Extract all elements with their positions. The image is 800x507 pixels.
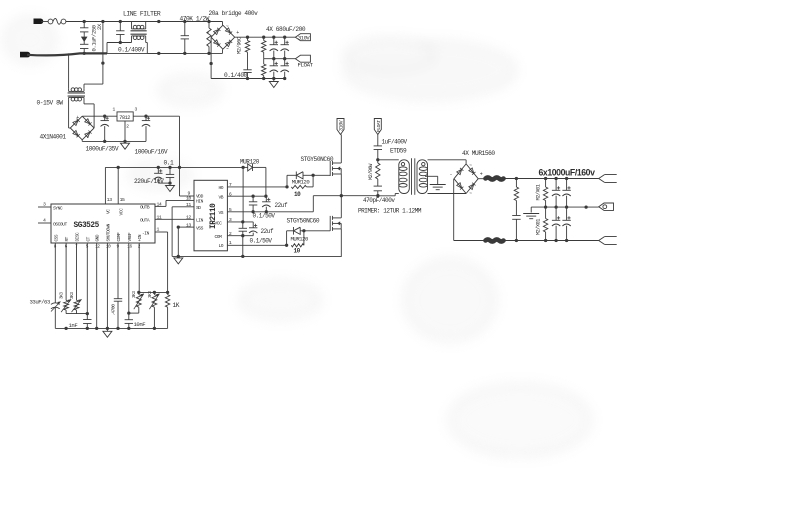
wire secondary right to bridge bbox=[84, 97, 94, 128]
pin 3 SYNC bbox=[38, 202, 63, 212]
svg-text:33uF/63: 33uF/63 bbox=[30, 299, 50, 306]
transformer T2 primary winding bbox=[399, 160, 410, 194]
svg-text:6x1000uF/160v: 6x1000uF/160v bbox=[539, 167, 596, 177]
surge arrester arrow bbox=[82, 34, 87, 41]
wire VCC pin 15 riser bbox=[117, 167, 119, 204]
wire RT column bbox=[65, 243, 67, 314]
svg-text:+: + bbox=[480, 172, 483, 178]
label 220uF/16V bbox=[134, 178, 164, 185]
earth ground at output mid bbox=[523, 207, 539, 219]
wire VB drop bbox=[265, 167, 267, 196]
svg-text:4X 680uF/200: 4X 680uF/200 bbox=[266, 26, 306, 33]
svg-text:0-15V 8W: 0-15V 8W bbox=[37, 100, 64, 107]
svg-text:0.1/50V: 0.1/50V bbox=[250, 238, 273, 245]
wire bottom DC- rail bbox=[454, 239, 599, 242]
wire SHUTDOWN column bbox=[106, 243, 108, 328]
capacitor 33uF/63 soft-start bbox=[51, 302, 61, 312]
capacitor 470pF/400v bbox=[374, 186, 382, 196]
capacitor 1000uF/160 #1 bbox=[552, 179, 560, 208]
MOSFET Q1 STGY50NC60 high side bbox=[330, 161, 341, 176]
svg-text:4X MUR1560: 4X MUR1560 bbox=[462, 150, 495, 157]
svg-text:+: + bbox=[236, 30, 239, 36]
capacitor 1uF/400V bbox=[374, 146, 382, 160]
connector FLOAT (vertical) bbox=[374, 119, 382, 135]
resistor balance top M2/X01 bbox=[543, 179, 547, 208]
fuse F1 bbox=[48, 19, 66, 25]
svg-text:OSCOUT: OSCOUT bbox=[53, 221, 68, 227]
ground at 12V bypass bbox=[166, 186, 175, 192]
line filter choke bottom winding bbox=[132, 36, 146, 43]
wire to LV transformer left pin bbox=[68, 53, 70, 88]
pin 13 VC label bbox=[106, 197, 113, 214]
wire trimmer bottoms to CT bbox=[66, 312, 89, 315]
wire half-bridge midpoint bbox=[313, 194, 379, 197]
label 22uf bootstrap bbox=[275, 202, 288, 209]
wire VB rail bbox=[227, 195, 267, 198]
wire GND column bbox=[96, 243, 98, 328]
pin 5 VS bbox=[219, 207, 232, 216]
label M2 snubber bbox=[368, 163, 374, 180]
svg-text:220uF/16V: 220uF/16V bbox=[134, 178, 164, 185]
wire AC top to bridge bbox=[222, 22, 224, 26]
svg-text:FLOAT: FLOAT bbox=[376, 120, 382, 132]
wire output V+ rail bbox=[504, 177, 599, 180]
svg-text:1K: 1K bbox=[173, 302, 180, 309]
label MUR120 bootstrap bbox=[240, 159, 260, 166]
svg-text:.4700: .4700 bbox=[110, 304, 116, 316]
svg-text:1uF/400V: 1uF/400V bbox=[382, 139, 408, 146]
wire pot top rail bbox=[137, 291, 169, 294]
resistor 10 low gate bbox=[291, 231, 304, 247]
svg-text:MUR120: MUR120 bbox=[240, 159, 260, 166]
ground at SG3525 bus bbox=[103, 328, 112, 337]
svg-text:M2/96W: M2/96W bbox=[368, 163, 374, 180]
svg-text:HIN: HIN bbox=[196, 199, 204, 205]
svg-text:VCC: VCC bbox=[215, 220, 223, 226]
svg-text:10: 10 bbox=[294, 191, 301, 198]
svg-text:DISC: DISC bbox=[76, 232, 81, 242]
capacitor 10nF bbox=[125, 320, 133, 324]
wire secondary left to bridge bbox=[69, 100, 71, 128]
svg-text:SYNC: SYNC bbox=[53, 205, 63, 211]
wire bridge to DC- down bbox=[453, 179, 455, 241]
label 20a bridge 400v bbox=[209, 10, 259, 17]
connector output V- bbox=[599, 237, 617, 245]
wire Q2 drain to midpoint bbox=[340, 196, 342, 218]
svg-text:1000uF/16V: 1000uF/16V bbox=[135, 148, 168, 155]
transformer T2 secondary lead top bbox=[428, 160, 467, 164]
label MUR120 low bbox=[291, 235, 310, 242]
LV transformer secondary bbox=[69, 97, 84, 101]
svg-text:310V: 310V bbox=[298, 36, 310, 42]
svg-text:0.1: 0.1 bbox=[164, 159, 175, 166]
wire mid float rail bbox=[264, 57, 296, 60]
capacitor 22uf vcc bbox=[249, 222, 257, 236]
resistor 1K bbox=[165, 292, 169, 328]
wire SD to ground bbox=[172, 207, 194, 257]
capacitor 1000uF/160 #2 bbox=[562, 179, 570, 208]
capacitor 1000uF/16V bbox=[142, 116, 150, 141]
svg-text:LINE FILTER: LINE FILTER bbox=[123, 11, 161, 18]
wire -IN feedback bbox=[155, 232, 168, 292]
trimmer RT bbox=[61, 299, 71, 312]
label 4X MUR1560 bbox=[462, 150, 495, 157]
svg-text:LIN: LIN bbox=[196, 217, 204, 223]
wire +12V down bbox=[179, 116, 181, 167]
capacitor 680uF/200 #4 bbox=[281, 59, 289, 80]
wire Q1 drain to 310V bbox=[340, 135, 342, 164]
SG3525 bottom pin labels bbox=[54, 223, 143, 249]
svg-text:LO: LO bbox=[219, 243, 224, 249]
pin 12 LIN bbox=[186, 214, 204, 223]
svg-text:ETD59: ETD59 bbox=[390, 148, 407, 155]
label 1K bbox=[173, 302, 180, 309]
wire VREF column bbox=[127, 243, 130, 328]
resistor bleeder upper bbox=[262, 37, 266, 59]
label 0.1/50V vcc bbox=[250, 238, 273, 245]
earth ground at center tap bbox=[430, 185, 446, 190]
svg-text:VCC: VCC bbox=[118, 208, 124, 216]
wire VCC feed down bbox=[242, 167, 244, 222]
label 470K 1/2W bbox=[180, 15, 210, 22]
svg-text:M2/96C: M2/96C bbox=[237, 37, 243, 54]
label STGY50NC60 high bbox=[301, 156, 334, 163]
trimmer +IN #1 bbox=[134, 292, 144, 309]
svg-text:COM: COM bbox=[215, 234, 223, 240]
connector output V+ bbox=[599, 175, 617, 183]
svg-text:GND: GND bbox=[96, 234, 101, 241]
label 22uf vcc bbox=[261, 228, 274, 235]
wire VCC pin stub bbox=[227, 220, 253, 223]
label 0-15V 8W bbox=[37, 100, 64, 107]
pin 1 LO bbox=[219, 240, 232, 249]
svg-text:-: - bbox=[86, 135, 89, 141]
wire AC top line bbox=[66, 21, 223, 23]
svg-text:22uf: 22uf bbox=[275, 202, 288, 209]
svg-text:MUR120: MUR120 bbox=[292, 179, 311, 186]
wire AC bottom to bridge bbox=[222, 49, 224, 53]
pin 3 VCC bbox=[215, 217, 232, 226]
pin 7 HO bbox=[219, 182, 232, 191]
LV transformer core bbox=[68, 93, 85, 96]
capacitor 1000uF/160 #4 bbox=[562, 207, 570, 240]
svg-text:SG3525: SG3525 bbox=[74, 222, 100, 230]
svg-text:7812: 7812 bbox=[119, 115, 130, 121]
wire CSS column bbox=[54, 243, 56, 328]
resistor snubber M2 bbox=[376, 160, 380, 186]
svg-text:VS: VS bbox=[219, 210, 224, 216]
inductor bead top (ferrite) bbox=[486, 178, 504, 180]
resistor balance bottom M2/X01 bbox=[543, 207, 547, 240]
svg-text:PRIMER: 12TUR 1.12MM: PRIMER: 12TUR 1.12MM bbox=[358, 208, 422, 215]
capacitor COMP 4n7 bbox=[114, 299, 122, 302]
label COMP cap bbox=[110, 304, 116, 316]
transformer T2 secondary lead bottom bbox=[428, 193, 467, 195]
wire LO to gate bbox=[304, 230, 330, 232]
label 0.1 bbox=[164, 159, 175, 166]
svg-text:-: - bbox=[450, 172, 453, 178]
label MUR120 high bbox=[292, 179, 311, 186]
label 470pF/400v bbox=[363, 197, 395, 204]
wire DC- rail bbox=[211, 77, 285, 80]
wire VREF to pot bottom bbox=[129, 307, 139, 313]
svg-text:SHUTDOWN: SHUTDOWN bbox=[106, 223, 111, 241]
svg-text:OUTA: OUTA bbox=[140, 217, 150, 223]
connector FLOAT (to right) bbox=[295, 55, 313, 68]
inductor bead bottom (ferrite) bbox=[486, 240, 504, 242]
pin 13 VSS bbox=[186, 222, 204, 231]
connector 310V (to right) bbox=[295, 34, 310, 42]
pin 9 VDD bbox=[188, 190, 204, 199]
wire COM down to rail bbox=[242, 236, 244, 257]
svg-text:13: 13 bbox=[107, 197, 112, 203]
svg-text:FLOAT: FLOAT bbox=[298, 61, 314, 68]
connector output 0 (with ring) bbox=[599, 203, 614, 210]
wire OUTB to HIN bbox=[155, 200, 194, 206]
ground at power rail bbox=[174, 256, 183, 264]
IC U1 SG3525 body bbox=[51, 204, 155, 243]
AC plug top terminal bbox=[34, 19, 44, 25]
LV transformer T1 primary bbox=[69, 88, 84, 92]
svg-text:VC: VC bbox=[106, 209, 112, 214]
wire to LV transformer right pin bbox=[84, 22, 105, 89]
wire AC bottom line (thick) bbox=[27, 53, 223, 55]
svg-text:310V: 310V bbox=[339, 120, 345, 131]
resistor R2/96C bleeder bbox=[245, 37, 249, 70]
label 1uF/400V bbox=[382, 139, 408, 146]
wire COM bbox=[227, 234, 253, 237]
label trimmer #1 bbox=[132, 291, 137, 298]
capacitor output snubber bbox=[512, 216, 520, 241]
label LINE FILTER bbox=[123, 11, 161, 18]
pin 2 COM bbox=[215, 231, 232, 240]
capacitor 0.1 bypass bbox=[166, 167, 174, 184]
wire Q2 source to ground rail bbox=[340, 229, 342, 257]
resistor bleeder lower bbox=[262, 59, 266, 79]
svg-text:+IN: +IN bbox=[138, 234, 143, 241]
wire 7812 ground pin bbox=[123, 121, 126, 143]
pin 6 VB bbox=[219, 191, 232, 200]
label M2/X01 top bbox=[535, 184, 541, 200]
svg-text:15: 15 bbox=[120, 197, 125, 203]
svg-text:0.1/400: 0.1/400 bbox=[224, 72, 248, 79]
label PRIMER 12TUR bbox=[358, 208, 422, 215]
label M2/X01 bottom bbox=[535, 219, 541, 235]
svg-text:STGY50NC60: STGY50NC60 bbox=[287, 217, 320, 224]
svg-text:4X1N4001: 4X1N4001 bbox=[40, 134, 67, 141]
regulator U2 7812 bbox=[113, 107, 138, 130]
line filter choke L1 top winding bbox=[132, 22, 146, 29]
bridge rectifier B1 20A 400V bbox=[207, 25, 240, 53]
svg-text:VSS: VSS bbox=[196, 225, 204, 231]
svg-text:STGY50NC60: STGY50NC60 bbox=[301, 156, 334, 163]
resistor output snubber bbox=[514, 179, 518, 216]
wire Q1 source to midpoint bbox=[340, 174, 343, 197]
junction dots AC bottom line bbox=[83, 52, 211, 55]
label 33uF/63 bbox=[30, 299, 50, 306]
wire DISC column bbox=[76, 243, 78, 314]
resistor 10 high gate bbox=[291, 175, 313, 188]
wire VS rail bbox=[227, 210, 313, 213]
pin 10 HIN bbox=[186, 196, 204, 205]
capacitor 0.1/400 snubber bbox=[243, 70, 251, 79]
wire SG3525 ground bus bbox=[55, 327, 167, 330]
wire +12V down to VDD bbox=[180, 167, 195, 196]
svg-text:SD: SD bbox=[196, 205, 201, 211]
label 10nF bbox=[134, 321, 146, 328]
pin 15 VCC label bbox=[118, 197, 125, 216]
svg-text:10: 10 bbox=[294, 247, 301, 254]
pin 11 OUTA bbox=[140, 215, 162, 224]
pin 14 OUTB bbox=[140, 202, 162, 211]
pin 1 -IN bbox=[142, 227, 160, 237]
trimmer +IN #2 bbox=[149, 292, 159, 328]
svg-text:OUTB: OUTB bbox=[140, 204, 150, 210]
wire CT column bbox=[86, 243, 88, 328]
capacitor 0.1/50V vcc bbox=[239, 222, 247, 236]
line filter choke core bbox=[131, 31, 147, 34]
capacitor 2X 0.1uF/250 (upper) bbox=[80, 22, 88, 35]
label 10 low bbox=[294, 247, 301, 254]
capacitor 680uF/200 #2 bbox=[281, 37, 289, 59]
svg-text:M2/X01: M2/X01 bbox=[535, 184, 541, 200]
wire LO bbox=[227, 244, 288, 247]
label M2/96C bbox=[237, 37, 243, 54]
wire LV DC- rail bbox=[82, 140, 146, 143]
svg-text:3K3: 3K3 bbox=[70, 292, 75, 299]
svg-text:470pF/400v: 470pF/400v bbox=[363, 197, 395, 204]
label 1000uF/35V bbox=[86, 145, 119, 152]
transformer T2 primary lead top bbox=[378, 159, 399, 161]
svg-text:10nF: 10nF bbox=[134, 321, 146, 328]
transformer T2 primary lead bottom bbox=[378, 194, 399, 196]
label 0.1/50V bootstrap bbox=[253, 213, 276, 220]
IC U3 IR2110 body bbox=[194, 180, 227, 251]
wire VC pin 13 riser bbox=[104, 167, 106, 204]
capacitor 1000uF/35V bbox=[101, 116, 109, 141]
ground at DC- rail bbox=[269, 79, 278, 88]
transformer T2 secondary winding bbox=[417, 160, 428, 194]
svg-text:COMP: COMP bbox=[117, 232, 122, 242]
pin 4 OSCOUT bbox=[38, 218, 68, 228]
label trimmer #2 bbox=[148, 291, 153, 298]
wire bridge minus down bbox=[209, 37, 212, 78]
capacitor 220uF/16V bbox=[154, 167, 170, 183]
svg-text:3K3: 3K3 bbox=[148, 291, 153, 298]
wire HO bbox=[227, 185, 288, 188]
svg-text:MUR120: MUR120 bbox=[291, 235, 310, 242]
wire HO to gate bbox=[313, 174, 330, 176]
svg-text:22uf: 22uf bbox=[261, 228, 274, 235]
diode MUR120 high gate bbox=[287, 172, 315, 187]
ground at 7812 bbox=[121, 143, 130, 149]
wire output mid rail bbox=[531, 205, 599, 208]
bridge rectifier B3 4x MUR1560 bbox=[450, 163, 483, 196]
svg-text:3K3: 3K3 bbox=[132, 291, 137, 298]
label 1000uF/16V bbox=[135, 148, 168, 155]
svg-text:10: 10 bbox=[186, 196, 191, 202]
svg-text:+: + bbox=[76, 115, 79, 121]
label DISC trimmer bbox=[70, 292, 75, 299]
capacitor 1000uF/160 #3 bbox=[552, 207, 560, 240]
wire VS riser bbox=[312, 196, 314, 212]
transformer T2 core bbox=[412, 158, 415, 195]
pin 11 SD bbox=[186, 202, 201, 211]
svg-text:20a bridge 400v: 20a bridge 400v bbox=[209, 10, 259, 17]
MOSFET Q2 STGY50NC60 low side bbox=[330, 216, 341, 231]
svg-text:HO: HO bbox=[219, 185, 224, 191]
wire plug to fuse bbox=[41, 21, 48, 23]
label 0.1/400V bbox=[118, 46, 145, 53]
capacitor 680uF/200 #3 bbox=[270, 59, 278, 79]
label RT trimmer bbox=[60, 292, 65, 299]
capacitor 680uF/200 #1 bbox=[270, 37, 278, 59]
label STGY50NC60 low bbox=[287, 217, 320, 224]
wire LV DC+ rail bbox=[82, 115, 117, 118]
svg-text:0.1/400V: 0.1/400V bbox=[118, 46, 145, 53]
label 2X 0.1uF/250 bbox=[91, 23, 104, 51]
resistor 470K bbox=[207, 22, 211, 54]
wire choke bottom left bbox=[107, 41, 132, 54]
capacitor 22uf bootstrap bbox=[262, 196, 270, 212]
wire OUTA to LIN bbox=[155, 218, 194, 220]
svg-text:0.1/50V: 0.1/50V bbox=[253, 213, 276, 220]
capacitor after filter bbox=[181, 22, 189, 54]
label 10 high bbox=[294, 191, 301, 198]
svg-text:M2/X01: M2/X01 bbox=[535, 219, 541, 235]
svg-text:3K3: 3K3 bbox=[60, 292, 65, 299]
wire FLOAT down bbox=[377, 135, 379, 146]
label 4X1N4001 bbox=[40, 134, 67, 141]
svg-text:VREF: VREF bbox=[128, 232, 133, 242]
label 0.1/400 bbox=[224, 72, 248, 79]
trimmer DISC bbox=[72, 299, 82, 312]
capacitor 0.1/50V bootstrap bbox=[249, 196, 257, 212]
AC plug bottom terminal bbox=[20, 52, 30, 58]
svg-text:CSS: CSS bbox=[54, 234, 59, 241]
svg-text:-: - bbox=[207, 30, 210, 36]
label 1nF bbox=[69, 322, 78, 329]
label ETD59 bbox=[390, 148, 407, 155]
svg-text:VB: VB bbox=[219, 195, 224, 201]
bridge rectifier B2 4x1N4001 bbox=[70, 115, 94, 141]
svg-text:470K 1/2W: 470K 1/2W bbox=[180, 15, 210, 22]
capacitor 2X 0.1uF/250 (lower) bbox=[80, 41, 88, 53]
wire DC+ 310V rail bbox=[235, 36, 296, 39]
wire +IN column bbox=[138, 243, 140, 292]
junction dots AC top line bbox=[83, 20, 211, 23]
label 6x1000uF/160v bbox=[539, 167, 596, 177]
capacitor 0.1/400V X-cap bbox=[116, 22, 124, 43]
wire VSS to ground bbox=[177, 225, 194, 256]
wire power ground rail bbox=[172, 255, 342, 258]
junction primary top bbox=[376, 158, 379, 161]
connector 310V (vertical) bbox=[337, 119, 345, 135]
diode MUR120 bootstrap bbox=[243, 164, 266, 171]
wire choke bottom right bbox=[146, 43, 185, 56]
capacitor 1nF bbox=[83, 320, 91, 324]
svg-text:1000uF/35V: 1000uF/35V bbox=[86, 145, 119, 152]
wire COMP column bbox=[117, 243, 119, 328]
wire +12V rail bbox=[105, 166, 244, 169]
diode MUR120 low gate bbox=[287, 227, 306, 245]
wire output plus from bridge bbox=[478, 178, 485, 180]
transformer T2 center tap bbox=[425, 176, 438, 184]
svg-text:12: 12 bbox=[186, 214, 191, 220]
wire 7812 out rail bbox=[133, 115, 179, 118]
label 4X 680uF/200 bbox=[266, 26, 306, 33]
